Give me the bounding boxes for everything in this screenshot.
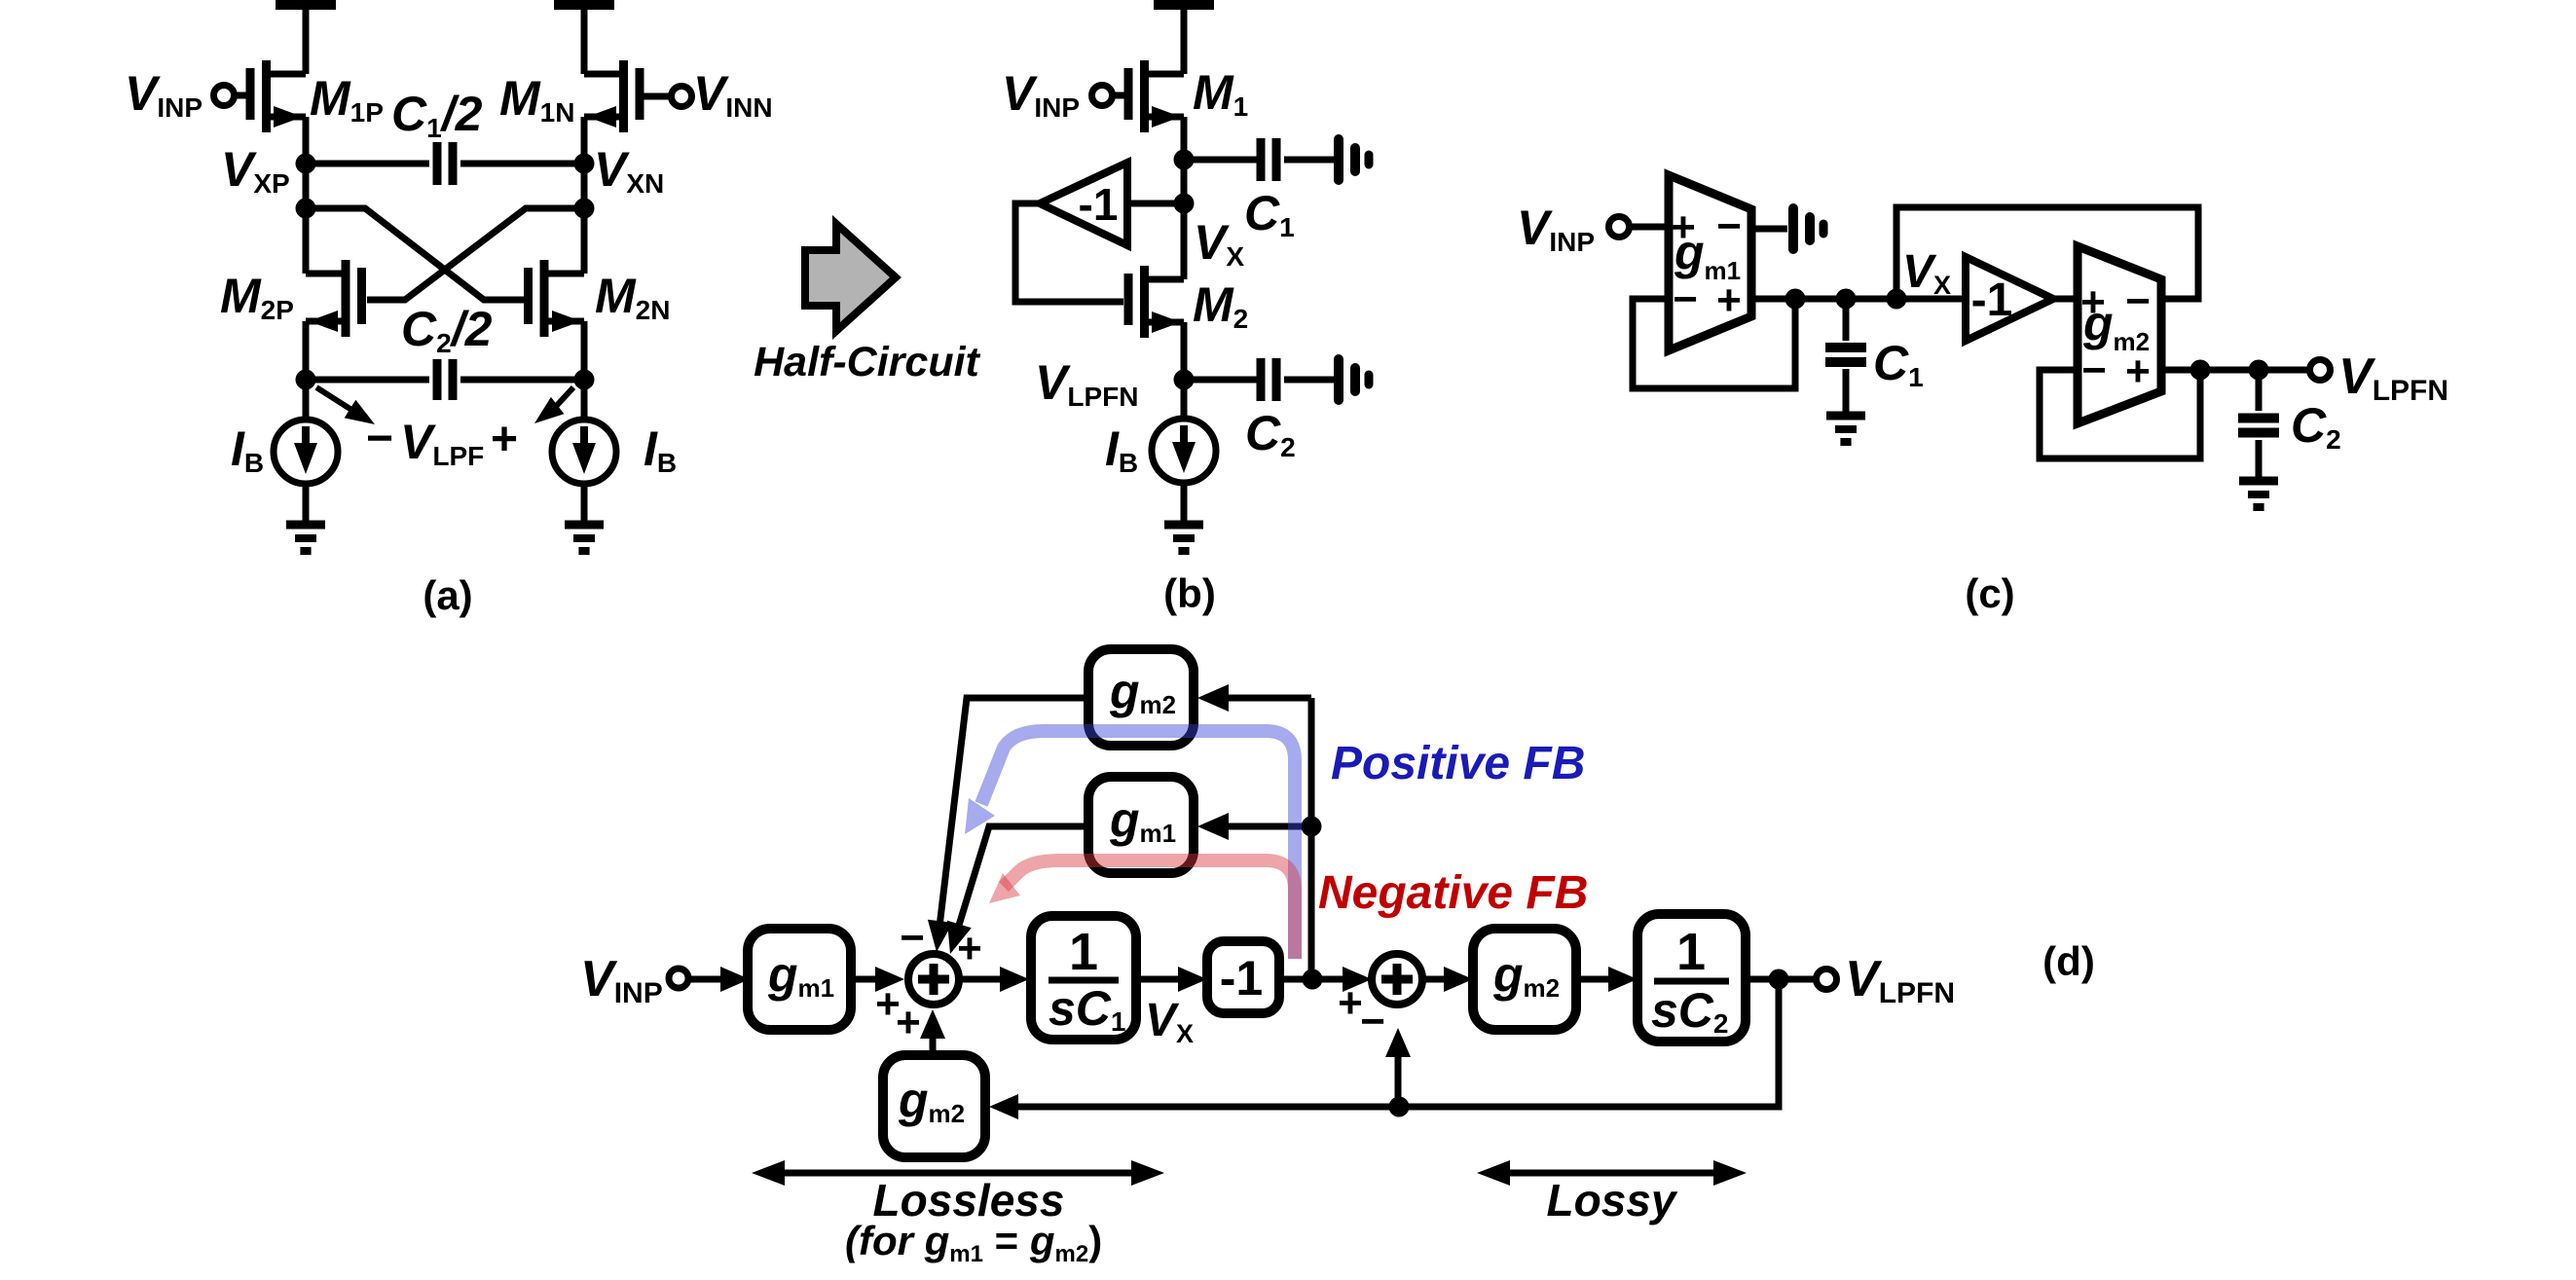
- svg-text:−: −: [1673, 275, 1698, 323]
- node c4 junction: [2249, 360, 2269, 381]
- wire M1 drain to VX: [1181, 117, 1188, 160]
- wire M1N drain to VXN: [581, 117, 588, 164]
- arrow bottom gm2 to summer1: [930, 1034, 937, 1055]
- svg-text:1: 1: [1676, 923, 1706, 981]
- ac ground C2 (b): [1284, 377, 1335, 384]
- arrow up to summer2: [1395, 1053, 1402, 1107]
- positive feedback highlight (blue): [981, 731, 1295, 959]
- cross-couple wire VXN to M2P gate: [367, 208, 584, 300]
- gm1 feedback loop (c): [1633, 299, 1795, 388]
- node c2 junction: [1836, 289, 1857, 310]
- svg-text:+: +: [1338, 979, 1363, 1027]
- VLPF arrow right: [550, 387, 573, 413]
- wire -1 to gm2 (c): [2053, 296, 2078, 303]
- wire node to IB right: [581, 380, 588, 421]
- wire VXP down: [303, 164, 310, 274]
- svg-text:+: +: [491, 414, 518, 465]
- VDD rail left (a): [276, 0, 336, 10]
- wire IB to ground right: [581, 483, 588, 525]
- arrow gm2 to 1/sC2: [1576, 976, 1614, 983]
- input terminal VINP (c): [1609, 217, 1630, 238]
- svg-text:(d): (d): [2042, 938, 2095, 984]
- node VXN lower junction: [574, 199, 595, 219]
- wire M2N source down: [581, 321, 588, 380]
- inverter -1 (c): [1966, 257, 2053, 341]
- capacitor C1 (c): [1843, 299, 1850, 341]
- summer 2: [1372, 954, 1422, 1005]
- svg-text:-1: -1: [1971, 274, 2013, 326]
- node source N: [574, 370, 595, 390]
- input terminal VINP (d): [669, 969, 688, 988]
- inverter -1 (b): [1040, 163, 1127, 245]
- wire mid gm1 to summer1: [957, 826, 1088, 932]
- node VX lower (b): [1174, 194, 1195, 214]
- arrow summer2 to gm2 (d): [1422, 976, 1450, 983]
- node VLPFN (b): [1174, 370, 1195, 390]
- block 1/sC1: [1031, 916, 1136, 1040]
- ground C1 (c): [1826, 412, 1865, 421]
- wire M1P drain to VXP: [303, 117, 310, 164]
- current source IB right: [552, 420, 616, 484]
- fraction bar 1/sC1: [1049, 977, 1119, 984]
- ground left (a): [286, 521, 325, 530]
- top gm2 block (d): [1088, 649, 1194, 746]
- half-circuit block arrow: [805, 224, 896, 331]
- VDD rail (b): [1154, 0, 1214, 10]
- input terminal VINN: [672, 87, 692, 107]
- wire output feedback down: [1012, 979, 1779, 1107]
- svg-text:−: −: [2125, 277, 2151, 325]
- block -1 (d): [1207, 941, 1279, 1013]
- capacitor C2/2: [306, 377, 429, 384]
- current source IB left: [274, 420, 338, 484]
- mid gm1 block (d): [1088, 777, 1194, 873]
- output terminal VLPFN (c): [2310, 360, 2331, 381]
- svg-text:−: −: [2081, 347, 2107, 394]
- svg-text:Half-Circuit: Half-Circuit: [754, 339, 980, 385]
- svg-text:−: −: [1360, 998, 1385, 1045]
- transistor M1P: [262, 60, 271, 132]
- node VX (c): [1887, 289, 1907, 310]
- svg-text:Lossy: Lossy: [1547, 1175, 1678, 1225]
- feedback wire -1 to M2 gate: [1015, 203, 1123, 302]
- wire 1/sC2 to output: [1746, 976, 1815, 983]
- block 1/sC2: [1638, 914, 1746, 1042]
- node VXN: [574, 154, 595, 174]
- current source IB (b): [1152, 419, 1216, 483]
- gm2 feedback loop (c): [2040, 370, 2200, 458]
- svg-text:Positive FB: Positive FB: [1331, 738, 1585, 789]
- input terminal VINP (b): [1092, 86, 1113, 106]
- wire IB to ground left: [303, 483, 310, 525]
- svg-text:1: 1: [1069, 923, 1098, 981]
- node c3 junction: [2190, 360, 2211, 381]
- cross-couple wire VXP to M2N gate: [306, 208, 524, 300]
- VLPF arrow left: [316, 387, 359, 415]
- VDD rail right (a): [554, 0, 614, 10]
- svg-text:+: +: [896, 999, 921, 1046]
- wire VLPFN to IB: [1181, 380, 1188, 420]
- wire VX down: [1181, 160, 1188, 279]
- summer 1: [908, 954, 959, 1005]
- arrow node to summer2: [1343, 967, 1372, 992]
- transistor M1N: [619, 60, 628, 132]
- wire IB to ground (b): [1181, 482, 1188, 525]
- transistor M1 (b): [1140, 60, 1149, 132]
- vertical feedback line (d): [1308, 698, 1315, 979]
- transistor M2 (b): [1140, 266, 1149, 338]
- transistor M2P: [342, 260, 350, 337]
- svg-text:(c): (c): [1965, 570, 2014, 616]
- arrow gm1 to summer1: [851, 976, 881, 983]
- ac ground gm1 (c): [1788, 208, 1798, 249]
- wire node to IB left: [303, 380, 310, 421]
- svg-text:−: −: [900, 914, 925, 962]
- node source P: [296, 370, 316, 390]
- svg-text:+: +: [1716, 276, 1742, 324]
- ground (b): [1164, 521, 1203, 530]
- negative feedback highlight (pink): [1004, 860, 1295, 959]
- node below summer2: [1389, 1097, 1410, 1117]
- arrow into top gm2 (d): [1221, 695, 1311, 702]
- node on vertical (d): [1302, 817, 1322, 837]
- ground C2 (c): [2239, 477, 2278, 486]
- wire VXN down: [581, 164, 588, 274]
- ground right (a): [565, 521, 604, 530]
- node VXP: [296, 154, 316, 174]
- arrow 1/sC1 to -1 (d): [1136, 976, 1184, 983]
- arrow into bottom gm2: [989, 1094, 1018, 1119]
- node VXP lower junction: [296, 199, 316, 219]
- fraction bar 1/sC2: [1654, 978, 1729, 985]
- svg-text:(b): (b): [1163, 570, 1216, 616]
- wire gm1 output row: [1751, 296, 1966, 303]
- gm2 transconductor (c): [2078, 246, 2161, 423]
- capacitor C1 (b): [1184, 157, 1257, 164]
- lossless range arrow: [773, 1170, 1143, 1177]
- capacitor C2 (b): [1184, 377, 1257, 384]
- node output (d): [1769, 969, 1789, 990]
- node c1 junction: [1785, 289, 1806, 310]
- svg-text:(a): (a): [423, 572, 472, 618]
- svg-text:−: −: [1716, 202, 1742, 250]
- svg-text:-1: -1: [1079, 179, 1119, 230]
- VX feedback wire top (c): [1896, 207, 2198, 299]
- bottom gm2 block (d): [883, 1055, 985, 1157]
- svg-text:-1: -1: [1220, 951, 1263, 1006]
- svg-text:Negative FB: Negative FB: [1318, 867, 1588, 919]
- arrow into mid gm1 (d): [1221, 823, 1311, 830]
- wire M2P source down: [303, 321, 310, 380]
- wire -1 output to VX: [1127, 201, 1184, 207]
- transistor M2N: [540, 260, 549, 337]
- input terminal VINP (a): [214, 86, 235, 106]
- svg-text:+: +: [2125, 347, 2151, 395]
- output terminal VLPFN (d): [1817, 969, 1837, 990]
- gm2 block (d): [1473, 929, 1576, 1030]
- wire M2 source to VLPFN: [1181, 322, 1188, 380]
- arrow summer1 to 1/sC1: [959, 976, 1006, 983]
- wire -1 to node (d): [1279, 976, 1351, 983]
- capacitor C2 (c): [2256, 370, 2263, 411]
- svg-text:−: −: [366, 413, 393, 464]
- capacitor C1/2: [306, 161, 429, 167]
- gm1 transconductor (c): [1669, 175, 1751, 350]
- wire top gm2 to summer1: [939, 698, 1088, 927]
- lossy range arrow: [1498, 1170, 1725, 1177]
- node after -1 (d): [1303, 969, 1323, 990]
- ac ground C1 (b): [1284, 157, 1335, 164]
- gm1 block (d): [748, 929, 851, 1030]
- wire gm1 minus output: [1751, 226, 1787, 233]
- arrow VINP to gm1 (d): [688, 976, 726, 983]
- wire gm2 output row (c): [2161, 367, 2309, 374]
- node VX (b): [1174, 150, 1195, 170]
